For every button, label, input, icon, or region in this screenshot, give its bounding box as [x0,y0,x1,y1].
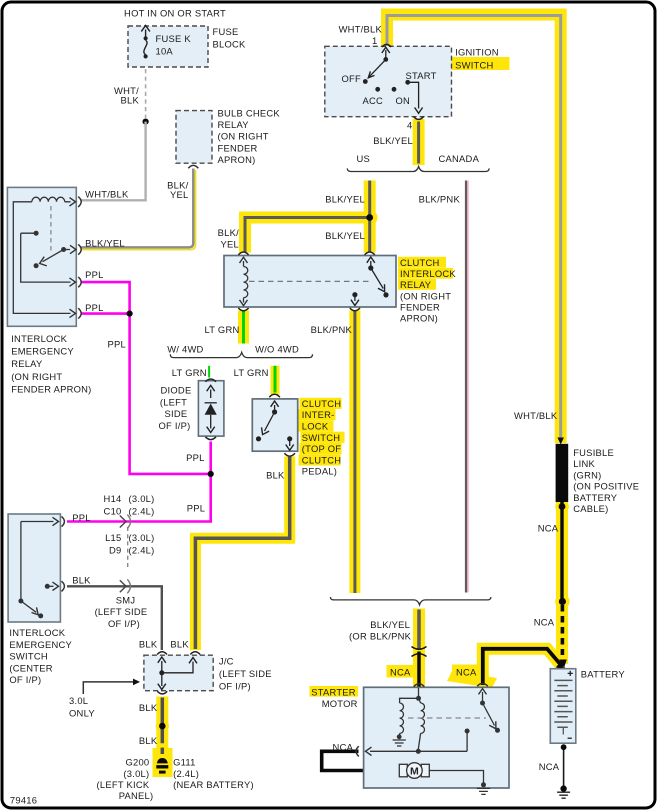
ground splice highlight blob [153,748,173,777]
svg-text:NCA: NCA [539,761,560,772]
wire highlight: BLK/PNK below clutch interlock relay [349,311,360,594]
svg-text:ON: ON [396,95,411,106]
svg-text:NCA: NCA [390,667,411,678]
svg-text:(LEFT SIDE: (LEFT SIDE [219,668,272,679]
junction ring BLK/YEL [362,210,378,226]
pin arcs [62,516,65,591]
svg-text:BLOCK: BLOCK [213,38,247,49]
ground inside starter [393,740,406,746]
wire: BLK/PNK below clutch interlock relay core [353,311,356,593]
wire: WHT/BLK ignition loop core [387,16,561,439]
svg-text:1: 1 [372,35,377,46]
label highlight: NCA (battery elbow) slanted [452,665,481,678]
interlock emergency relay (box) [7,187,76,326]
pin 4 arc [414,117,424,120]
ground splice G200/G111 [157,758,168,763]
svg-text:MOTOR: MOTOR [322,698,358,709]
svg-text:FENDER APRON): FENDER APRON) [11,383,91,394]
pin 1 arc [382,44,391,47]
fuse block (dashed box) [128,26,208,67]
svg-text:(ON RIGHT: (ON RIGHT [11,371,62,382]
svg-text:INTERLOCK: INTERLOCK [400,268,456,279]
node: NCA ring dot 2 [559,598,566,605]
label highlight: NCA (left of starter feed) [387,665,418,678]
svg-text:PEDAL): PEDAL) [302,466,337,477]
svg-text:APRON): APRON) [218,154,256,165]
svg-text:EMERGENCY: EMERGENCY [9,639,72,650]
svg-text:RELAY: RELAY [400,279,432,290]
svg-text:BLK: BLK [72,575,91,586]
pin arcs [78,197,81,319]
wire highlight: BLK J/C to ground splice [156,697,168,775]
svg-text:(NEAR BATTERY): (NEAR BATTERY) [173,779,254,790]
starter switch [482,692,484,701]
svg-text:10A: 10A [156,46,174,57]
svg-text:NCA: NCA [534,617,555,628]
movable arm [43,250,71,262]
svg-text:(LEFT KICK: (LEFT KICK [97,779,150,790]
ground: battery negative [560,785,566,791]
svg-text:79416: 79416 [10,795,37,806]
svg-text:INTER-: INTER- [302,409,335,420]
svg-text:J/C: J/C [219,656,234,667]
svg-text:(3.0L): (3.0L) [123,768,149,779]
svg-text:LT GRN: LT GRN [234,367,269,378]
svg-text:BLK/: BLK/ [218,227,239,238]
wire: NCA into starter core [417,652,421,688]
START to pin 4 [408,82,419,108]
svg-text:PPL: PPL [187,502,205,513]
svg-text:OF I/P): OF I/P) [159,420,191,431]
battery [550,669,576,744]
arrowhead: NCA dashed into battery + [559,660,567,669]
svg-text:OF I/P): OF I/P) [219,680,251,691]
svg-text:WHT/BLK: WHT/BLK [514,410,558,421]
svg-text:BLK/YEL: BLK/YEL [325,230,365,241]
arrow: 3.0L ONLY pointer [83,682,135,694]
svg-text:NCA: NCA [333,741,354,752]
wire highlight: WHT/BLK ignition feed loop [387,15,561,444]
svg-text:G200: G200 [125,757,149,768]
svg-text:(ON RIGHT: (ON RIGHT [218,131,269,142]
pin arcs bottom [238,308,360,311]
svg-text:INTERLOCK: INTERLOCK [11,333,67,344]
fusible link bar [556,444,569,502]
wire: BLK J/C to ground splice core [161,698,165,755]
svg-text:H14: H14 [104,493,122,504]
svg-text:BLK: BLK [266,470,285,481]
svg-text:YEL: YEL [221,239,239,250]
wire highlight: LT GRN to clutch switch [271,366,280,395]
svg-text:IGNITION: IGNITION [455,46,499,57]
wire: BLK/YEL bulb check relay to interlock emergency relay (gray trace) [81,169,193,248]
svg-text:OF I/P): OF I/P) [9,674,41,685]
svg-text:RELAY: RELAY [218,119,250,130]
svg-text:SIDE: SIDE [165,408,188,419]
svg-text:START: START [406,70,437,81]
svg-text:OF I/P): OF I/P) [108,618,140,629]
svg-text:SWITCH: SWITCH [302,432,340,443]
svg-text:EMERGENCY: EMERGENCY [11,346,74,357]
node: BLK/YEL junction dot [366,214,373,221]
svg-text:(TOP OF: (TOP OF [302,443,341,454]
svg-text:STARTER: STARTER [311,686,356,697]
svg-text:BLK/PNK: BLK/PNK [311,324,353,335]
svg-text:BLK/YEL: BLK/YEL [85,237,125,248]
svg-text:BLK: BLK [170,638,189,649]
node: NCA ring dot 1 [559,503,566,510]
svg-text:C10: C10 [104,506,122,517]
svg-text:HOT IN ON OR START: HOT IN ON OR START [124,8,226,19]
wire highlight: NCA battery elbow [483,649,562,687]
bulb check relay (dashed box) [176,111,212,164]
svg-text:(2.4L): (2.4L) [129,545,155,556]
position dots OFF ACC ON START [363,79,368,84]
arrowhead: into fusible link [557,438,564,445]
svg-text:(3.0L): (3.0L) [129,493,155,504]
svg-text:FENDER: FENDER [218,142,258,153]
node: PPL junction at relay [127,311,133,317]
pin arcs on starter [414,683,488,686]
wire highlight: BLK/YEL ignition pin 4 [413,119,425,165]
wire: WHT/BLK fuse block drop (dashed) [145,56,147,67]
node: battery negative dot [561,744,567,750]
wire: BLK/YEL ignition pin4 core [417,122,420,164]
svg-text:RELAY: RELAY [11,358,43,369]
label highlight: CLUTCH INTERLOCK SWITCH [300,398,342,409]
svg-text:LT GRN: LT GRN [204,324,239,335]
pivot arm to pin1 [385,50,387,58]
coil (vertical) [244,267,248,298]
wire: LT GRN stub (W/4WD) [208,366,210,378]
hold-in coil [418,698,424,749]
svg-text:FENDER: FENDER [400,301,440,312]
svg-text:SMJ: SMJ [116,594,136,605]
svg-text:PPL: PPL [186,452,204,463]
node: BLK junction ring dot [159,723,166,730]
wire: NCA starter to motor loop (thick) [322,751,399,770]
fixed contact + feed [21,233,71,282]
wire: NCA below fusible link [560,502,563,602]
mech dashed link [50,206,52,253]
svg-text:BLK: BLK [121,95,140,106]
bracket: W/ 4WD - W/O 4WD split [170,352,312,357]
solenoid feed [418,688,420,696]
svg-text:US: US [356,153,370,164]
svg-text:SWITCH: SWITCH [455,60,493,71]
label highlight: SWITCH (ignition) [447,57,510,70]
mech dashed link [249,280,371,282]
starter motor (box) [364,687,509,788]
svg-text:3.0L: 3.0L [69,695,88,706]
svg-text:BLK: BLK [139,702,158,713]
svg-text:ONLY: ONLY [69,707,95,718]
svg-text:BLK/YEL: BLK/YEL [373,135,413,146]
svg-text:PPL: PPL [72,512,90,523]
svg-text:G111: G111 [173,757,196,768]
svg-text:(ON RIGHT: (ON RIGHT [400,290,451,301]
svg-text:BLK/YEL: BLK/YEL [325,194,365,205]
wire highlight: BLK clutch switch to J/C [195,457,289,651]
wire: BLK/PNK CANADA branch [467,181,469,593]
svg-text:INTERLOCK: INTERLOCK [9,627,65,638]
svg-text:FUSE K: FUSE K [156,33,192,44]
svg-text:(CENTER: (CENTER [9,662,52,673]
svg-text:YEL: YEL [170,189,188,200]
wire: BLK interlock emergency switch to J/C [67,586,162,650]
svg-text:(2.4L): (2.4L) [173,768,199,779]
svg-text:(2.4L): (2.4L) [129,506,155,517]
wire: SMJ dashed link [127,527,129,570]
relay switch [370,261,372,266]
svg-text:WHT/BLK: WHT/BLK [339,23,383,34]
node: PPL junction at diode [208,471,214,477]
svg-text:(OR BLK/PNK: (OR BLK/PNK [349,630,412,641]
svg-text:(LEFT SIDE: (LEFT SIDE [95,606,148,617]
wire: NCA dashed to battery [561,605,565,655]
wire: PPL relay pins to distribution [67,282,211,521]
svg-text:4: 4 [407,120,412,131]
node: WHT/BLK junction [143,119,149,125]
clutch interlock switch (box) [252,399,297,451]
svg-text:BULB CHECK: BULB CHECK [218,107,281,118]
wire: BLK/YEL (OR BLK/PNK) to starter upper core [417,610,421,649]
svg-text:L15: L15 [105,532,121,543]
svg-text:SWITCH: SWITCH [9,651,47,662]
svg-text:BATTERY: BATTERY [573,492,618,503]
wire highlight: BLK/YEL US branch elbow [245,181,370,253]
interlock emergency switch (box) [8,514,60,622]
wire highlight: BLK/YEL(OR BLK/PNK) to starter [413,609,425,689]
svg-text:(ON POSITIVE: (ON POSITIVE [573,481,639,492]
svg-text:(LEFT: (LEFT [160,396,187,407]
svg-text:FUSIBLE: FUSIBLE [573,447,614,458]
wire highlight: LT GRN below relay [238,311,249,344]
svg-text:(3.0L): (3.0L) [129,532,155,543]
svg-text:NCA: NCA [538,523,559,534]
pull-in coil [400,698,419,736]
svg-text:CLUTCH: CLUTCH [302,398,342,409]
WIRES-HIGHLIGHT LAYER [153,15,570,778]
fuse FUSE K 10A [141,26,150,59]
svg-text:CLUTCH: CLUTCH [400,257,440,268]
svg-text:LT GRN: LT GRN [172,367,207,378]
wire: WHT/BLK junction to interlock emergency relay [81,122,146,201]
svg-text:PANEL): PANEL) [119,790,154,801]
svg-text:WHT/BLK: WHT/BLK [85,189,129,200]
svg-text:D9: D9 [109,545,121,556]
svg-text:PPL: PPL [85,302,103,313]
svg-text:BLK: BLK [139,638,158,649]
svg-text:LOCK: LOCK [302,421,329,432]
svg-text:FUSE: FUSE [213,26,239,37]
wire: NCA battery negative to ground [563,747,565,788]
diode assembly (box) [198,381,224,436]
svg-text:OFF: OFF [342,73,362,84]
svg-text:M: M [410,765,419,777]
svg-text:W/ 4WD: W/ 4WD [167,343,203,354]
label highlight: CLUTCH INTERLOCK RELAY [398,257,446,268]
connector SMJ (PPL) [120,516,126,528]
svg-text:(GRN): (GRN) [573,469,601,480]
bracket: US / CANADA split [347,167,489,172]
svg-text:APRON): APRON) [400,313,438,324]
svg-text:PPL: PPL [85,269,103,280]
wire: LT GRN to clutch switch core [274,366,277,393]
pin arcs top [238,252,374,255]
motor M [429,771,483,784]
wire: BLK clutch switch to J/C core [195,457,289,649]
svg-text:BLK/PNK: BLK/PNK [419,194,461,205]
label highlight: STARTER [310,686,359,697]
bracket: merge above starter [330,597,491,605]
WIRE LAYER [67,16,568,789]
connector SMJ (BLK) [120,580,126,592]
svg-text:NCA: NCA [456,666,477,677]
diode symbol [205,402,217,404]
svg-text:CLUTCH: CLUTCH [302,454,342,465]
svg-text:LINK: LINK [573,458,595,469]
svg-text:DIODE: DIODE [161,385,192,396]
svg-text:BLK/YEL: BLK/YEL [370,619,410,630]
wire: BLK/YEL bulb check relay to interlock emergency relay (yellow trace) [82,170,196,250]
coil of interlock emergency relay [32,197,65,202]
ignition switch (dashed box) [325,46,452,116]
svg-text:ACC: ACC [363,95,384,106]
wire: NCA battery elbow core [483,649,561,685]
arrowhead: NCA elbow into battery [556,660,566,671]
mech dashed [408,717,486,719]
battery +/- [568,671,573,676]
svg-text:BATTERY: BATTERY [581,668,626,679]
svg-text:CABLE): CABLE) [573,503,608,514]
svg-text:BLK: BLK [139,735,158,746]
pin: bulb check relay output [188,165,198,168]
wire highlight: NCA fusible link to battery [556,502,568,664]
connector: inline above starter [412,647,427,657]
svg-text:PPL: PPL [108,338,126,349]
clutch interlock relay (box) [224,256,396,308]
wire: BLK/YEL US branch core [245,181,370,253]
arm to OFF [369,59,386,77]
svg-text:CANADA: CANADA [439,153,480,164]
svg-text:W/O 4WD: W/O 4WD [255,343,299,354]
J/C junction connector (dashed box) [144,655,213,691]
wire: LT GRN below relay core [242,311,245,344]
